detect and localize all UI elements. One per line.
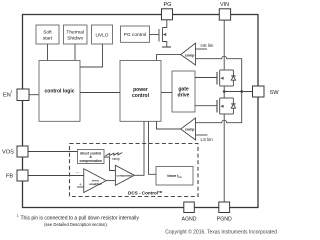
wire Q2 source to SW node: [223, 86, 225, 92]
wire FB to error amplifier inverting input: [28, 175, 84, 177]
pin AGND: [182, 202, 197, 222]
svg-text:SW: SW: [270, 90, 280, 96]
wire direct control to comparator via ramp node: [104, 157, 115, 171]
wire gate drive to Q2 gate: [195, 77, 217, 79]
wire VOS to direct control block: [28, 151, 78, 153]
svg-text:start: start: [43, 36, 53, 42]
wire power control to timer: [149, 121, 157, 174]
op-amp U4 (error amplifier): [84, 169, 107, 193]
svg-text:(see Detailed Description sect: (see Detailed Description section).: [44, 222, 108, 227]
svg-text:Copyright © 2016, Texas Instru: Copyright © 2016, Texas Instruments Inco…: [165, 229, 277, 236]
wire Q3 source to PGND: [223, 92, 225, 203]
wire comp U3 output to power control: [157, 121, 181, 129]
wire comp U3 LS lim stub: [196, 134, 208, 136]
wire comp U2 HS lim stub: [196, 48, 208, 50]
svg-text:PGND: PGND: [217, 216, 232, 222]
svg-text:amplifier: amplifier: [89, 182, 102, 186]
op-amp U3 (LS current limit comparator): [181, 118, 196, 140]
pin EN: [3, 89, 29, 101]
wire control logic to power control: [80, 92, 120, 94]
wire Thermal Shtdwn to control logic: [74, 44, 76, 61]
transistor Q3 (low side FET): [217, 98, 233, 114]
svg-text:control logic: control logic: [45, 89, 75, 95]
svg-text:UVLO: UVLO: [95, 33, 108, 39]
diode D2 (Q3 body diode): [231, 98, 235, 114]
svg-text:Soft: Soft: [43, 30, 52, 36]
svg-text:This pin is connected to a pul: This pin is connected to a pull down res…: [21, 216, 140, 222]
svg-text:comp: comp: [185, 53, 195, 57]
transistor Q2 body arrow: [220, 77, 223, 80]
block control logic: [39, 61, 80, 122]
pin SW: [253, 86, 280, 97]
svg-text:ramp: ramp: [112, 157, 120, 161]
block gate drive: [172, 71, 195, 112]
svg-text:+: +: [79, 182, 82, 187]
wire gate drive to Q3 gate: [195, 105, 217, 107]
wire PG control to Q1 gate: [149, 34, 159, 36]
wire SW node to SW pin: [224, 91, 252, 93]
wire EN to control logic: [29, 94, 39, 96]
block timer ton: [156, 167, 193, 186]
junction dot SW node: [223, 90, 226, 93]
svg-text:AGND: AGND: [182, 216, 197, 222]
op-amp U5 (PWM comparator): [115, 165, 134, 185]
transistor Q2 (high side FET): [217, 70, 233, 86]
svg-text:drive: drive: [178, 93, 190, 99]
svg-text:1: 1: [17, 214, 19, 218]
block PG control: [121, 26, 150, 42]
wire error amplifier output to comparator: [106, 180, 115, 182]
dashed DCS-Control block: [70, 144, 199, 197]
svg-text:VIN: VIN: [220, 2, 229, 8]
transistor Q1 body arrow: [163, 33, 166, 36]
svg-text:HS lim: HS lim: [201, 43, 214, 48]
diode D1 (Q2 body diode): [231, 70, 235, 86]
svg-text:LS lim: LS lim: [201, 137, 214, 142]
svg-text:Thermal: Thermal: [66, 30, 84, 36]
block Thermal Shtdwn: [64, 25, 88, 44]
pin FB: [6, 170, 28, 181]
wire comparator output to power control: [134, 121, 144, 175]
wire VIN to Q2 drain: [223, 20, 225, 70]
svg-text:PG: PG: [163, 2, 171, 8]
wire Soft start to control logic: [47, 44, 49, 61]
transistor Q3 body arrow: [220, 105, 223, 108]
pin PG: [162, 2, 173, 20]
transistor Q1 (PG open drain FET): [159, 20, 171, 47]
svg-text:DCS - ControlTM: DCS - ControlTM: [128, 190, 163, 196]
junction dot sense rail at SW: [240, 90, 243, 93]
svg-text:PG control: PG control: [124, 32, 147, 38]
block UVLO: [92, 25, 113, 44]
svg-text:Shtdwn: Shtdwn: [67, 36, 83, 42]
svg-text:control: control: [132, 93, 150, 99]
block Soft start: [36, 25, 59, 44]
svg-text:−: −: [76, 170, 79, 175]
outer border: [23, 15, 259, 208]
wire comp U2 output to power control: [157, 55, 181, 61]
op-amp U2 (HS current limit comparator): [181, 43, 196, 65]
pin PGND: [217, 202, 232, 222]
block power control: [120, 61, 161, 122]
ramp sawtooth symbol: [106, 153, 123, 156]
svg-text:comparator: comparator: [117, 174, 134, 178]
svg-text:comp: comp: [185, 128, 195, 132]
pin VOS: [2, 146, 28, 157]
wire error amplifier reference stub: [77, 186, 84, 188]
svg-text:compensation: compensation: [80, 159, 102, 163]
wire UVLO to control logic: [80, 44, 103, 67]
svg-text:FB: FB: [6, 174, 13, 180]
wire comp U2 sense to SW rail (hop over VIN line): [196, 56, 242, 91]
pin VIN: [219, 2, 230, 20]
wire comp U3 sense to SW rail (hop over PGND line): [196, 92, 242, 123]
svg-text:VOS: VOS: [2, 150, 14, 156]
wire power control to gate drive: [161, 92, 172, 94]
svg-text:1: 1: [11, 90, 13, 94]
block direct control and compensation: [78, 150, 105, 164]
